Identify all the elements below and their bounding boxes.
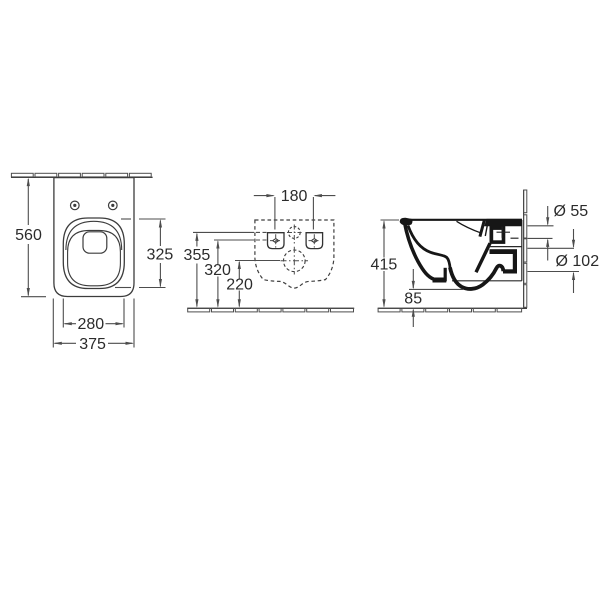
seat surface line [457, 221, 482, 233]
bowl bottom flat [433, 278, 447, 283]
bowl inner outline plan [68, 230, 121, 285]
rim front tip [400, 218, 413, 226]
dimension 325 [115, 219, 166, 288]
fixing hole left diamond [273, 239, 279, 243]
dimension 415 [381, 220, 400, 308]
svg-text:280: 280 [77, 316, 104, 333]
svg-text:85: 85 [404, 291, 422, 308]
drain pipe bottom bar [503, 269, 517, 273]
screw hole left plan [71, 201, 80, 210]
svg-text:Ø 55: Ø 55 [554, 203, 589, 220]
flush pipe slant thin [485, 223, 488, 236]
inlet crosshair [497, 227, 511, 238]
ceramic bottom back line [452, 280, 522, 282]
dimension d55 [528, 206, 554, 261]
fixing hole right diamond [311, 239, 317, 243]
flush pipe slant thick [480, 220, 485, 237]
inlet box [490, 226, 506, 244]
screw hole right plan [109, 201, 118, 210]
dimension 560 [21, 178, 46, 297]
fixing hole left centerlines [270, 234, 282, 247]
outlet circle d102 rear [284, 250, 306, 272]
rim top thick band [484, 219, 522, 226]
svg-text:325: 325 [147, 247, 174, 264]
dimension 85 [409, 269, 463, 327]
inlet box inner [493, 230, 502, 240]
inlet centerline dash [511, 237, 519, 239]
svg-text:415: 415 [371, 256, 398, 273]
svg-text:220: 220 [226, 277, 253, 294]
dimension 180 [254, 194, 336, 230]
svg-text:Ø 102: Ø 102 [556, 253, 600, 270]
drain pipe top bar [490, 249, 518, 254]
bowl back diagonal [476, 243, 490, 272]
inlet circle d55 rear [288, 227, 300, 239]
fixing hole right centerlines [309, 234, 321, 247]
svg-text:375: 375 [79, 336, 106, 353]
seat ring arc plan [66, 221, 122, 250]
drain flange line [490, 246, 522, 248]
outlet circle centerlines [281, 247, 309, 275]
bowl outer rim plan [63, 218, 124, 289]
dimension 280 [63, 299, 124, 328]
fixing hole right rear [306, 233, 323, 249]
floor hatch side [378, 308, 527, 312]
dimension 355 [193, 232, 267, 307]
rim top line [403, 219, 522, 221]
drain opening plan [83, 232, 107, 253]
bowl inner curve [408, 226, 450, 270]
svg-text:180: 180 [281, 188, 308, 205]
toilet body outline plan [54, 178, 134, 297]
wall hatch top view [11, 173, 153, 177]
rear outline dashed [255, 220, 334, 288]
bowl bottom step [444, 268, 447, 282]
bowl outer front curve [405, 223, 435, 280]
dimension d102 [528, 229, 580, 293]
svg-text:560: 560 [15, 227, 42, 244]
fixing hole left rear [268, 233, 285, 249]
trap curve [450, 266, 503, 289]
floor hatch middle [187, 308, 354, 312]
ceramic back edge [521, 220, 523, 281]
inlet circle centerlines [287, 225, 302, 245]
dimension 220 [235, 261, 280, 308]
dimension 375 [53, 299, 134, 348]
dimension 320 [214, 240, 267, 308]
wall hatch side [524, 190, 527, 308]
drain pipe right bar [513, 251, 517, 273]
